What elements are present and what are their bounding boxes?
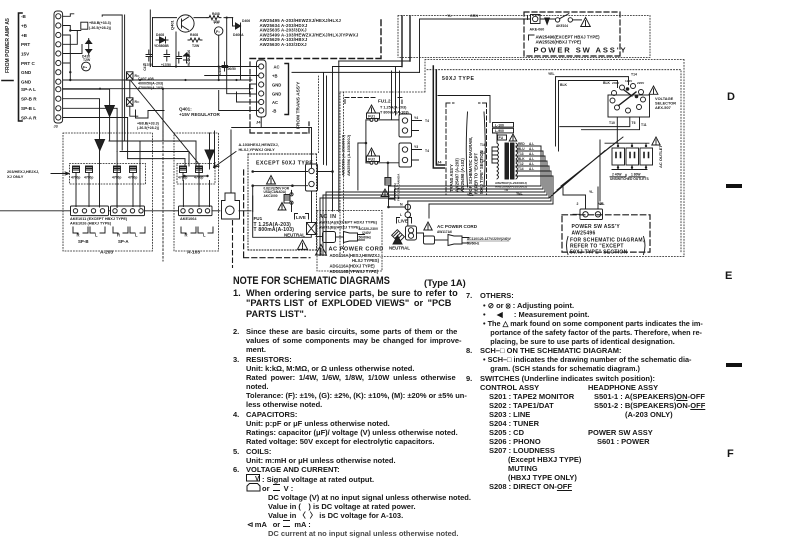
svg-text:HLXJ TYPES): HLXJ TYPES)	[352, 258, 380, 263]
svg-text:T6: T6	[504, 188, 508, 192]
svg-text:L-100: L-100	[495, 123, 504, 127]
wire cord right	[417, 233, 424, 236]
svg-text:+B: +B	[21, 24, 28, 29]
node voltage label	[89, 21, 112, 30]
node switch label	[556, 24, 568, 28]
box AW list dashed	[250, 20, 381, 59]
svg-text:FROM POWER AMP A5: FROM POWER AMP A5	[5, 18, 11, 73]
svg-text:A-103: A-103	[187, 250, 200, 256]
node L plug circle	[405, 212, 411, 218]
svg-text:4700/50(A-103): 4700/50(A-103)	[138, 86, 164, 90]
svg-text:J4: J4	[437, 160, 442, 165]
svg-text:N: N	[400, 203, 403, 207]
svg-text:AEX-507: AEX-507	[655, 105, 671, 110]
svg-text:BLK: BLK	[603, 81, 611, 85]
svg-text:YL: YL	[589, 190, 593, 194]
capacitor C603	[387, 164, 389, 178]
wire +B2 drop	[63, 35, 70, 80]
capacitor C409	[222, 62, 228, 71]
fuse FU1	[307, 223, 317, 235]
node AW power sw types	[536, 35, 601, 45]
svg-text:T10: T10	[609, 121, 615, 125]
svg-text:SP-B: SP-B	[78, 239, 89, 244]
node selector voltage tags	[612, 79, 645, 85]
svg-text:GND: GND	[21, 70, 32, 75]
node J4 right label	[437, 160, 442, 165]
connector CN4	[399, 143, 412, 167]
svg-text:AC POWER CORD: AC POWER CORD	[329, 247, 384, 253]
junction dots	[99, 65, 238, 89]
capacitor C433	[112, 166, 121, 181]
svg-text:AW25496: AW25496	[572, 231, 596, 237]
node EXCEPT label	[256, 161, 313, 167]
wire A1 runout	[139, 141, 141, 207]
svg-text:FROM TRANS ASS'Y: FROM TRANS ASS'Y	[296, 81, 302, 129]
svg-text:(-36.5(+28.2)): (-36.5(+28.2))	[89, 26, 112, 30]
svg-text:T14: T14	[518, 167, 524, 171]
svg-text:D408: D408	[156, 33, 164, 37]
terminal strip SP-A	[111, 206, 145, 216]
svg-text:50/60Hz: 50/60Hz	[467, 242, 480, 246]
svg-text:LIVE: LIVE	[398, 219, 408, 224]
node wire labels YL GRN	[447, 14, 478, 18]
svg-text:A.L: A.L	[529, 157, 534, 161]
connector CN3	[399, 114, 412, 137]
node selector drop tags	[609, 121, 647, 127]
svg-text:+15V REGULATOR: +15V REGULATOR	[179, 112, 220, 117]
junction outlet dots	[617, 145, 647, 169]
svg-text:BLK: BLK	[518, 157, 525, 161]
box AC IN dotted	[317, 211, 382, 272]
svg-text:AKE1011 (EXCEPT HBXJ TYPE): AKE1011 (EXCEPT HBXJ TYPE)	[70, 217, 128, 221]
node callout 203/HEXJ	[7, 169, 39, 179]
svg-text:A.L: A.L	[529, 152, 534, 156]
node R L brackets SP-A	[113, 227, 145, 233]
connector J3 strip	[54, 11, 63, 123]
svg-text:T13: T13	[480, 151, 486, 155]
svg-text:GND: GND	[272, 83, 281, 88]
svg-text:1 80W: 1 80W	[631, 173, 641, 177]
resistor R601	[284, 195, 290, 204]
socket AC outlet 1	[612, 148, 625, 165]
wire jack feed	[231, 130, 251, 211]
svg-text:SP-B L: SP-B L	[21, 106, 36, 111]
terminal strip SP-B	[71, 206, 109, 216]
svg-text:50XJ TYPE" SECTION: 50XJ TYPE" SECTION	[479, 150, 484, 194]
svg-text:Y4: Y4	[414, 116, 418, 120]
capacitor C419	[176, 52, 182, 63]
svg-text:4700p: 4700p	[71, 176, 80, 180]
svg-text:YEL: YEL	[467, 193, 474, 197]
svg-text:T14: T14	[480, 159, 486, 163]
svg-text:R408: R408	[190, 33, 198, 37]
safety triangle FU	[367, 105, 375, 113]
wire SPB drop2	[117, 89, 163, 208]
wire switch feed	[420, 18, 531, 20]
svg-text:-B: -B	[272, 109, 276, 114]
box power sw dotted outer	[398, 16, 650, 58]
svg-text:50/60Hz: 50/60Hz	[359, 235, 372, 239]
svg-text:AW25630 A-103/3DXJ: AW25630 A-103/3DXJ	[260, 42, 308, 47]
svg-text:YEL: YEL	[516, 192, 523, 196]
svg-text:T14: T14	[631, 73, 637, 77]
wire L to socket	[407, 218, 409, 227]
svg-text:SP-A L: SP-A L	[21, 87, 36, 92]
wire N L feeds	[389, 199, 406, 207]
fuse F402	[215, 27, 223, 35]
fuse F601 rotated	[392, 230, 405, 243]
svg-text:AW25598(A-103/300J): AW25598(A-103/300J)	[495, 185, 527, 189]
wire bracket	[2, 13, 22, 121]
node AW type list	[260, 18, 359, 47]
node LIVE label right	[398, 219, 408, 224]
wire fan diagonals	[549, 137, 623, 201]
wire J4 AC2 left	[237, 92, 259, 102]
headphone jack J5	[222, 193, 240, 219]
box capacitors A203 dotted	[70, 164, 146, 185]
node tab box	[81, 22, 88, 29]
node trans bottom label	[495, 181, 527, 189]
svg-text:SP-A R: SP-A R	[21, 116, 37, 121]
svg-text:100/50: 100/50	[226, 67, 236, 71]
svg-text:R••: R••	[135, 100, 141, 104]
node cord types	[330, 253, 381, 274]
safety triangle FU2	[367, 148, 375, 156]
node AW25580 rotated	[341, 134, 352, 176]
node R L brackets SP-B	[73, 227, 105, 233]
wire CN6 feeds	[563, 187, 598, 215]
wire +B run	[63, 26, 81, 31]
node FU1 labels	[254, 216, 295, 233]
wire regulator left frame	[150, 10, 176, 67]
voltage icon boxes for item 6	[246, 473, 264, 493]
node 50XJ label	[442, 76, 475, 82]
node AKE labels	[70, 217, 128, 226]
node selector wire tags	[548, 72, 637, 87]
svg-text:EXCEPT 50XJ TYPE: EXCEPT 50XJ TYPE	[256, 161, 313, 167]
svg-text:4000/50(A-203): 4000/50(A-203)	[138, 82, 164, 86]
node FROM POWER AMP label	[5, 18, 11, 73]
svg-text:L-900: L-900	[495, 129, 504, 133]
node primary tags	[480, 143, 486, 163]
wire top drop pair	[102, 15, 124, 150]
fuse FU2 box	[367, 156, 380, 162]
svg-text:SP-A: SP-A	[118, 239, 129, 244]
node LIVE label	[296, 215, 306, 220]
svg-text:BLU: BLU	[518, 147, 525, 151]
node J4 label	[256, 120, 261, 125]
svg-text:+B: +B	[21, 33, 28, 38]
capacitor C417	[146, 50, 152, 61]
svg-text:R: R	[117, 233, 120, 238]
svg-text:AKE-060: AKE-060	[530, 28, 545, 32]
node VOLTAGE SELECTOR label	[655, 96, 676, 110]
box 50XJ inner dotted	[344, 70, 682, 254]
wire J4 bracket	[285, 64, 289, 115]
box trans connector dashed	[250, 62, 309, 133]
svg-text:BLK: BLK	[560, 83, 568, 87]
svg-text:120V: 120V	[625, 79, 633, 83]
node A-103 label	[187, 250, 200, 256]
svg-text:Y3: Y3	[414, 145, 418, 149]
svg-text:HD1AE300: HD1AE300	[187, 50, 191, 66]
diode D410 pair	[86, 39, 92, 56]
wire step	[136, 110, 165, 118]
safety triangle XC	[381, 189, 389, 197]
diode D406	[233, 18, 241, 80]
wire primary top	[438, 96, 490, 123]
safety triangle AO	[652, 137, 660, 145]
svg-text:POWER SW ASS'Y: POWER SW ASS'Y	[534, 45, 628, 54]
node AC IN labels	[319, 214, 378, 229]
wire SP-B R drop	[63, 99, 100, 140]
node wire tags	[414, 116, 429, 153]
svg-text:R408: R408	[212, 12, 220, 16]
wire J4 AC left	[153, 66, 259, 68]
socket AC outlet 3	[640, 148, 653, 165]
svg-text:T 1.25A(A-203): T 1.25A(A-203)	[380, 106, 407, 110]
node FU1.2 label	[378, 99, 391, 104]
svg-text:C407,408: C407,408	[138, 77, 154, 81]
svg-text:NEUTRAL: NEUTRAL	[389, 246, 410, 251]
safety triangle black R	[393, 236, 402, 245]
svg-text:L: L	[95, 233, 98, 238]
node callout A-103/HEXJ	[239, 142, 279, 152]
wire outlet bus	[605, 143, 649, 146]
svg-text:Q401: Q401	[170, 19, 175, 30]
svg-text:R: R	[185, 233, 188, 238]
node AC OUTLET label	[658, 145, 663, 168]
svg-text:T4: T4	[425, 149, 429, 153]
svg-text:4700p: 4700p	[84, 176, 93, 180]
node outlet ratings	[610, 173, 649, 182]
wire caps to strip A203	[76, 181, 133, 207]
wire regulator mid	[153, 66, 253, 68]
node bracket parens	[567, 237, 646, 255]
svg-text:YD5808B: YD5808B	[154, 44, 169, 48]
svg-text:F••: F••	[214, 21, 219, 25]
svg-text:2: 2	[577, 202, 579, 206]
node AW25496 labels	[570, 224, 645, 256]
svg-text:ADG116B(YPWXJ TYPE): ADG116B(YPWXJ TYPE)	[330, 269, 379, 274]
svg-text:T4: T4	[425, 119, 429, 123]
svg-text:50XJ TYPE" SECTION: 50XJ TYPE" SECTION	[570, 250, 628, 256]
wire regulator top	[153, 18, 250, 94]
box POWER SW AW25496 dashed	[562, 215, 650, 252]
wire top bundle corners	[292, 61, 420, 165]
safety triangle T1	[267, 176, 276, 185]
svg-text:GND: GND	[272, 92, 281, 97]
box TRANS ASSY dashed	[446, 103, 487, 195]
node voltage label 2	[137, 122, 160, 131]
fuse FU box	[498, 135, 507, 140]
safety triangle VS	[649, 86, 658, 94]
box power sw dashed	[524, 12, 620, 56]
svg-text:T16: T16	[480, 143, 486, 147]
svg-text:FOR USA/CANADA: FOR USA/CANADA	[397, 173, 401, 201]
connector cord body R	[424, 236, 435, 244]
node A-203 label	[100, 250, 113, 256]
wire fan drops left	[320, 186, 429, 256]
wire to AC in	[316, 236, 323, 238]
svg-text:YL: YL	[447, 14, 452, 18]
wire thick J4 drop	[433, 66, 444, 168]
wire PRT drop	[63, 32, 82, 54]
node N plug circle	[405, 204, 411, 210]
wire SP-B L drop	[63, 108, 128, 158]
wire bottom dashed border	[232, 221, 234, 268]
node C407 values	[138, 77, 164, 90]
node tab J4	[250, 84, 257, 94]
svg-text:A.L: A.L	[529, 167, 534, 171]
arrow A3	[210, 131, 215, 168]
box capacitors A103 dotted	[177, 164, 215, 185]
node R L brackets A103	[181, 227, 213, 233]
connector AC cord body	[323, 232, 336, 243]
wire cord	[336, 236, 344, 238]
node NEUTRAL label	[284, 232, 305, 237]
svg-text:AKE1064: AKE1064	[180, 217, 197, 221]
transformer T601	[497, 143, 499, 179]
svg-text:T13: T13	[518, 152, 524, 156]
plug P2	[448, 235, 469, 246]
wire callout arrow 2	[214, 152, 237, 168]
wire cord R	[435, 239, 449, 241]
resistor R408	[188, 38, 202, 42]
node AKE1064 label	[180, 217, 197, 221]
node POWER SW ASSY label	[534, 45, 628, 54]
capacitor C441	[178, 166, 187, 181]
wire live run	[253, 196, 312, 237]
svg-text:XJ ONLY: XJ ONLY	[7, 174, 24, 179]
svg-text:+B8.B(+33.3): +B8.B(+33.3)	[137, 122, 160, 126]
wire F402 drop	[218, 35, 220, 80]
wire bus GND2	[63, 88, 253, 90]
wire outlet bottom bus	[612, 166, 647, 170]
svg-text:T2W: T2W	[192, 44, 200, 48]
svg-text:LIVE: LIVE	[296, 215, 306, 220]
wire SP-A L drop	[63, 89, 110, 106]
capacitor C431	[71, 166, 80, 181]
svg-text:GND: GND	[21, 80, 32, 85]
plug P1	[344, 232, 365, 243]
svg-text:15V: 15V	[21, 52, 30, 57]
svg-text:+B: +B	[272, 74, 277, 79]
svg-text:AC OUTLET: AC OUTLET	[658, 145, 663, 168]
capacitor C434	[128, 166, 137, 181]
capacitor C442	[194, 166, 203, 181]
safety triangle black	[298, 240, 308, 249]
svg-text:R: R	[77, 233, 80, 238]
socket AC601	[406, 226, 417, 240]
svg-text:AKE1026 (HBXJ TYPE): AKE1026 (HBXJ TYPE)	[70, 222, 112, 226]
arrow A1	[105, 106, 115, 142]
node plug voltage	[359, 227, 379, 239]
svg-text:UNSWITCHED OUTLETS: UNSWITCHED OUTLETS	[610, 177, 649, 181]
svg-text:ADG116A(HDXJ TYPE): ADG116A(HDXJ TYPE)	[330, 263, 376, 268]
wire -B to tab	[63, 14, 74, 17]
wire bundle drop2	[396, 67, 400, 116]
node SP-B SP-A labels	[78, 239, 129, 244]
svg-text:A.L: A.L	[529, 142, 534, 146]
svg-text:220V: 220V	[637, 81, 645, 85]
capacitor C432	[84, 166, 93, 181]
node FROM TRANS ASSY label	[296, 81, 302, 129]
svg-text:240V: 240V	[612, 81, 620, 85]
svg-text:TRANS ASS'Y: TRANS ASS'Y	[449, 164, 454, 192]
wire caps to strip A103	[109, 141, 210, 207]
svg-text:FU1: FU1	[254, 216, 263, 221]
svg-text:FU: FU	[499, 136, 504, 140]
capacitor C418	[164, 50, 170, 61]
svg-text:50XJ TYPE: 50XJ TYPE	[442, 76, 475, 82]
svg-text:A-203: A-203	[100, 250, 113, 256]
box EXCEPT dashed	[248, 154, 317, 250]
wire transformer primary feeds	[492, 133, 497, 163]
svg-text:AW117A6: AW117A6	[437, 230, 452, 234]
box A-103 dotted	[174, 133, 219, 251]
wire J4 -B left	[219, 91, 259, 111]
svg-text:FOR SCHEMATIC DIAGRAM,: FOR SCHEMATIC DIAGRAM,	[468, 137, 473, 194]
svg-text:AC: AC	[274, 65, 280, 70]
svg-text:AW25596 (A-103/300J): AW25596 (A-103/300J)	[346, 134, 351, 176]
box A-203 dotted	[63, 133, 153, 251]
svg-text:+B8.B(+33.3): +B8.B(+33.3)	[89, 21, 112, 25]
svg-text:POWER SW ASS'Y: POWER SW ASS'Y	[572, 224, 621, 230]
node Q401 regulator label	[179, 107, 220, 118]
node plug voltage R	[467, 237, 512, 246]
diode D408	[156, 37, 168, 43]
svg-text:SP-B R: SP-B R	[21, 97, 37, 102]
node fan tags	[458, 188, 605, 207]
svg-text:AKE104: AKE104	[556, 24, 568, 28]
svg-text:-B: -B	[21, 14, 27, 19]
wire J4 down feed	[232, 118, 312, 153]
arrow A2	[95, 140, 105, 208]
svg-text:28: 28	[600, 202, 604, 206]
node L-100 L-900 boxes	[493, 123, 514, 128]
svg-text:A.L: A.L	[529, 147, 534, 151]
node secondary tags	[518, 142, 534, 171]
svg-text:2 40W: 2 40W	[612, 173, 622, 177]
svg-text:L: L	[135, 233, 138, 238]
svg-text:D406: D406	[242, 19, 250, 23]
svg-text:A.L: A.L	[529, 162, 534, 166]
connector J4 pins	[259, 64, 264, 69]
wire transformer secondary taps	[516, 146, 553, 176]
switch S601	[555, 18, 559, 22]
connector CN2	[306, 164, 318, 191]
wire diagonal feed	[131, 81, 199, 190]
wire selector feeds top	[556, 77, 629, 151]
wire bus GND1	[63, 79, 252, 81]
wire J4 +B left	[205, 75, 259, 77]
node TRANS ASSY rotated	[449, 137, 484, 194]
svg-text:F•: F•	[216, 30, 220, 34]
connector J4 strip	[257, 60, 267, 117]
svg-text:RED: RED	[518, 142, 525, 146]
resistor R402 box	[127, 72, 134, 80]
svg-text:T6: T6	[458, 188, 462, 192]
svg-text:AC110/120-127V/220V(240)V: AC110/120-127V/220V(240)V	[467, 237, 512, 241]
svg-text:PRT: PRT	[21, 42, 30, 47]
svg-text:C409: C409	[218, 67, 222, 75]
svg-text:AC: AC	[272, 100, 278, 105]
svg-text:NEUTRAL: NEUTRAL	[284, 232, 305, 237]
node J3 label	[54, 125, 58, 129]
svg-text:AC POWER CORD: AC POWER CORD	[437, 224, 478, 229]
svg-text:PRT C: PRT C	[21, 61, 35, 66]
